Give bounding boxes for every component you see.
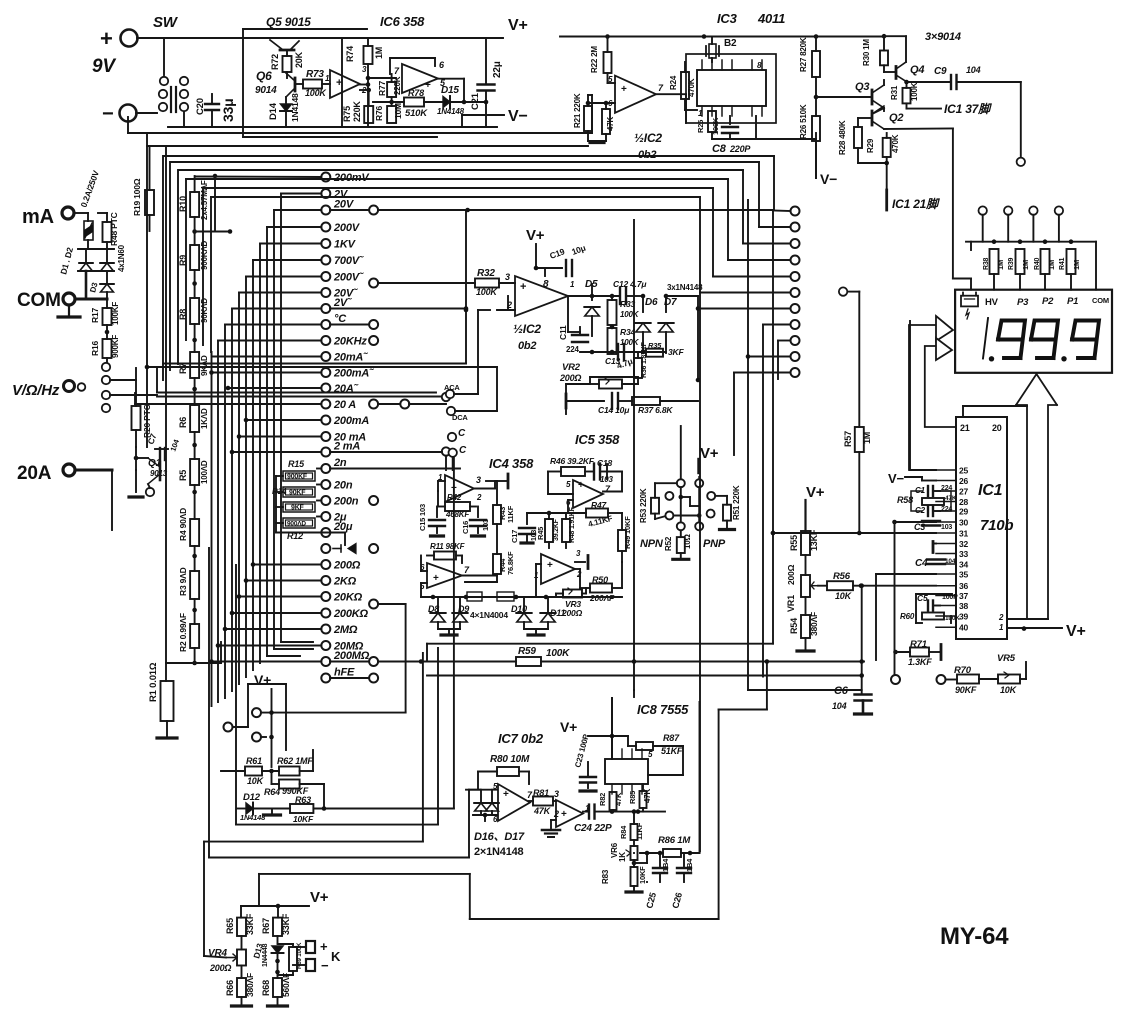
resistor R28 480K <box>854 127 862 148</box>
svg-text:R55: R55 <box>789 535 799 551</box>
display box <box>955 290 1112 373</box>
svg-text:Q5 9015: Q5 9015 <box>266 15 311 29</box>
wire 200Vac <box>246 276 321 278</box>
svg-text:R60: R60 <box>900 612 915 621</box>
svg-text:224: 224 <box>941 506 952 513</box>
svg-text:R73: R73 <box>306 69 324 80</box>
svg-text:C8: C8 <box>712 143 727 155</box>
wire right contacts <box>773 210 791 213</box>
wire ic5b out <box>575 568 580 570</box>
svg-text:D7: D7 <box>664 297 677 308</box>
svg-text:2: 2 <box>998 613 1004 622</box>
svg-text:C6: C6 <box>834 685 849 697</box>
svg-text:10K: 10K <box>835 591 853 601</box>
resistor R39 1M <box>1016 249 1025 274</box>
circle DCA <box>447 407 455 415</box>
resistor R87 51KF <box>636 742 653 750</box>
switch contact 200mA <box>321 416 330 425</box>
switch contact °C <box>321 320 330 329</box>
svg-text:R57: R57 <box>843 431 853 447</box>
capacitor C18 103 <box>593 464 595 480</box>
svg-text:20: 20 <box>992 423 1002 433</box>
resistor R5 100 <box>190 459 199 485</box>
svg-text:R31: R31 <box>890 85 899 100</box>
svg-text:2n: 2n <box>333 457 347 469</box>
svg-text:1B4: 1B4 <box>661 858 670 872</box>
capacitor C2 224 <box>927 506 929 516</box>
capacitor C8 220P <box>729 116 731 124</box>
resistor R78 510K <box>373 101 404 103</box>
svg-text:−: − <box>102 103 113 125</box>
svg-text:200V˜: 200V˜ <box>333 272 364 284</box>
svg-text:R4 90ΛD: R4 90ΛD <box>178 508 188 541</box>
svg-text:IC7 0b2: IC7 0b2 <box>498 731 544 746</box>
svg-text:1K: 1K <box>618 852 627 862</box>
wire center divider <box>633 220 635 690</box>
svg-text:D5: D5 <box>585 279 598 290</box>
wire top rail <box>137 37 503 39</box>
svg-text:39.2KF: 39.2KF <box>553 518 560 541</box>
diode D7 <box>665 296 667 312</box>
svg-text:R6: R6 <box>178 417 188 428</box>
wire ic4b <box>421 570 427 572</box>
svg-text:R51 220K: R51 220K <box>732 485 741 520</box>
svg-text:33KF: 33KF <box>245 913 255 935</box>
svg-text:13KF: 13KF <box>809 529 819 551</box>
svg-text:200MΩ: 200MΩ <box>333 650 370 662</box>
resistor R41 1M <box>1067 249 1076 274</box>
op-amp IC7b <box>556 800 583 827</box>
resistor R54 380F <box>805 597 807 615</box>
svg-text:R67: R67 <box>261 918 271 934</box>
svg-text:C9: C9 <box>934 66 947 77</box>
capacitor C1 224 <box>911 491 922 511</box>
fuse 0.2A/250V <box>74 212 88 214</box>
wire ACA net <box>465 210 467 364</box>
svg-text:90KF: 90KF <box>955 685 977 695</box>
svg-text:900ΛD: 900ΛD <box>287 521 306 528</box>
svg-text:104: 104 <box>945 558 956 565</box>
svg-text:R40: R40 <box>1034 257 1041 270</box>
svg-text:V+: V+ <box>508 17 528 34</box>
label IC1 37 <box>906 103 908 108</box>
svg-text:R76: R76 <box>374 106 384 121</box>
resistor R71 1.3KF <box>893 650 898 655</box>
wire 200mV <box>196 176 321 179</box>
capacitor C17 103 <box>526 513 528 524</box>
svg-text:1KV: 1KV <box>334 239 357 251</box>
svg-text:47K: 47K <box>643 789 652 803</box>
resistor R30 1M <box>883 36 885 50</box>
switch contact 200KΩ <box>321 609 330 618</box>
arrow display bottom <box>1016 405 1027 619</box>
svg-text:20A: 20A <box>17 463 52 484</box>
wire vr4 vplus <box>241 905 309 907</box>
svg-text:R78: R78 <box>408 88 424 98</box>
svg-text:1.3KF: 1.3KF <box>908 657 932 667</box>
resistor R52 10 <box>680 530 682 537</box>
battery contact K <box>306 941 315 953</box>
wire pin20 21 traces <box>962 406 964 417</box>
svg-text:1M: 1M <box>862 432 872 444</box>
svg-text:R45: R45 <box>536 527 545 540</box>
svg-text:28: 28 <box>959 497 969 507</box>
wire pin1 vplus <box>1007 627 1062 629</box>
circle C2 <box>449 449 457 457</box>
svg-text:V+: V+ <box>254 672 271 688</box>
resistor R9 900K <box>190 245 199 270</box>
diode D6 <box>642 296 644 312</box>
svg-text:Q2: Q2 <box>889 112 903 124</box>
svg-text:200Ω: 200Ω <box>333 560 361 572</box>
svg-text:Q6: Q6 <box>256 69 272 83</box>
wire R63 riser <box>453 455 455 809</box>
wire ic5a fb <box>547 472 549 495</box>
resistor R2 0.99 <box>190 624 199 648</box>
pot VR6 1K <box>631 846 638 860</box>
switch contact 2KΩ <box>321 576 330 585</box>
wire hFE socket <box>271 689 273 767</box>
capacitor C14 10u <box>566 400 604 402</box>
wire ic4a out <box>474 488 495 490</box>
svg-text:1N4448: 1N4448 <box>262 943 269 967</box>
svg-text:½IC2: ½IC2 <box>513 322 541 336</box>
resistor R75 220K <box>364 106 373 123</box>
resistor R34 100K <box>608 328 617 354</box>
wire socket vplus <box>697 459 699 473</box>
contact column right <box>791 207 800 216</box>
IC8 box <box>605 759 648 784</box>
resistor R10 2x4.57M <box>190 192 199 217</box>
wire d89 gnd <box>438 628 460 630</box>
svg-text:C4: C4 <box>915 558 928 569</box>
circle ACA <box>446 390 454 398</box>
svg-text:D6: D6 <box>645 297 658 308</box>
resistor R24 470K <box>681 72 689 99</box>
svg-text:R80 10M: R80 10M <box>490 754 530 765</box>
pot VR1 200 <box>801 575 810 597</box>
svg-text:27: 27 <box>959 487 969 497</box>
wire right bus verticals <box>773 156 775 210</box>
ground COM <box>68 306 70 316</box>
resistor R51 220K <box>715 495 727 497</box>
svg-text:R83: R83 <box>601 869 610 884</box>
svg-text:R65: R65 <box>225 918 235 934</box>
svg-text:R66: R66 <box>225 980 235 996</box>
wire 20mAac <box>212 356 322 358</box>
wire ic3 rail <box>560 36 884 38</box>
svg-text:200n: 200n <box>333 496 359 508</box>
wire c6 riser <box>748 689 862 691</box>
svg-text:R85: R85 <box>628 791 637 804</box>
svg-text:104: 104 <box>966 65 981 75</box>
svg-text:10M: 10M <box>393 103 403 119</box>
switch contact 20V˜ <box>321 288 330 297</box>
wire d1011 gnd <box>524 628 548 630</box>
svg-text:200Ω: 200Ω <box>559 373 581 383</box>
svg-text:1B4: 1B4 <box>685 858 694 872</box>
wire 20Vac <box>239 292 321 294</box>
wire ic5 bottom <box>592 596 622 598</box>
svg-text:R84: R84 <box>619 825 628 839</box>
svg-text:200Ω: 200Ω <box>561 608 583 618</box>
svg-text:Q4: Q4 <box>910 64 924 76</box>
battery + terminal <box>121 30 138 47</box>
resistor R6 1K <box>190 405 199 432</box>
switch contact 700V˜ <box>321 256 330 265</box>
svg-text:200Ω: 200Ω <box>209 963 231 973</box>
wire 20mA <box>239 436 321 438</box>
resistor R67 33KF <box>273 918 282 936</box>
svg-text:R48 1.91KF: R48 1.91KF <box>569 506 576 543</box>
svg-text:9KΛD: 9KΛD <box>200 355 209 376</box>
svg-text:700V˜: 700V˜ <box>334 255 364 267</box>
wire c5 box <box>915 594 917 623</box>
svg-text:900KF: 900KF <box>287 474 308 481</box>
wire 200mAac <box>212 372 322 374</box>
resistor R84 11KF <box>631 824 638 840</box>
svg-text:100K: 100K <box>546 648 570 659</box>
wire ic8 top loop <box>588 735 628 737</box>
op-amp IC6a <box>330 70 360 98</box>
resistor R69 100K <box>278 943 294 945</box>
svg-text:9KF: 9KF <box>291 505 305 512</box>
wire 700V <box>253 259 321 261</box>
wire mA net <box>85 271 88 299</box>
switch contact 20V <box>321 206 330 215</box>
svg-text:+: + <box>547 560 553 571</box>
display contacts <box>979 206 987 214</box>
svg-text:D14: D14 <box>268 102 279 120</box>
resistor R77 220K <box>387 82 396 97</box>
svg-text:°C: °C <box>334 313 347 325</box>
svg-text:3: 3 <box>476 475 481 485</box>
resistor R66 380F <box>241 966 243 979</box>
resistor R62 1MF <box>279 767 300 776</box>
svg-text:D15: D15 <box>441 85 459 96</box>
svg-text:8: 8 <box>543 279 549 290</box>
svg-text:R28 480K: R28 480K <box>838 120 847 155</box>
svg-text:R36 1.87KF: R36 1.87KF <box>641 341 648 378</box>
svg-text:10KF: 10KF <box>638 866 647 884</box>
svg-text:200mV: 200mV <box>333 172 370 184</box>
svg-text:2: 2 <box>506 300 512 310</box>
svg-text:C11: C11 <box>558 325 568 340</box>
wire bus bottoms <box>274 648 313 650</box>
wire bottom rail power <box>183 112 185 127</box>
svg-text:33KF: 33KF <box>281 913 291 935</box>
svg-text:IC3: IC3 <box>717 11 738 26</box>
svg-text:C18: C18 <box>597 458 612 468</box>
svg-text:P3: P3 <box>1017 297 1029 308</box>
resistor R49 10KF <box>621 513 623 530</box>
svg-text:10K: 10K <box>247 776 265 786</box>
svg-text:4×1N4004: 4×1N4004 <box>470 610 508 620</box>
svg-text:710b: 710b <box>980 517 1013 534</box>
wire q3 base <box>816 96 872 98</box>
svg-text:470K: 470K <box>891 134 900 153</box>
wire ic2a out <box>656 93 686 95</box>
resistor R55 13KF <box>801 531 810 555</box>
wire vr2 down <box>566 383 590 385</box>
svg-text:20μ: 20μ <box>333 521 353 533</box>
resistor R85 47K <box>640 791 647 808</box>
svg-text:200mA: 200mA <box>333 415 369 427</box>
wire vr1 top <box>804 500 806 531</box>
svg-text:R81: R81 <box>533 788 549 798</box>
resistor R8 90K <box>190 298 199 324</box>
resistor R31 100K <box>903 88 911 104</box>
svg-text:D9: D9 <box>458 604 469 614</box>
capacitor pin32 stub <box>932 542 935 553</box>
svg-text:mA: mA <box>22 206 54 228</box>
switch contact 20μ <box>321 528 330 537</box>
svg-text:35: 35 <box>959 570 969 580</box>
resistor R50 200F <box>590 584 612 593</box>
svg-text:+: + <box>100 26 113 51</box>
svg-text:20n: 20n <box>333 480 353 492</box>
battery - terminal <box>120 105 137 122</box>
capacitor C25 184 <box>659 853 661 866</box>
svg-text:100K: 100K <box>305 88 327 98</box>
resistor R63 10KF <box>290 804 313 813</box>
wire ic2 out <box>544 268 546 276</box>
svg-text:C: C <box>458 428 466 439</box>
svg-text:3x1N4148: 3x1N4148 <box>667 283 703 292</box>
op-amp IC7 <box>498 784 530 821</box>
resistor R42 468KF <box>445 502 470 511</box>
wire bottom bus 4 <box>259 873 470 875</box>
wire pin35 <box>876 573 936 575</box>
wire pin2 trace <box>1007 618 1048 620</box>
capacitor C24 22P <box>583 811 589 813</box>
svg-text:R39: R39 <box>1008 257 1015 270</box>
wire bottom bus 3 <box>204 841 423 843</box>
resistor R25 100K <box>708 111 716 132</box>
diode D9 <box>453 613 467 622</box>
svg-text:47K: 47K <box>606 117 615 131</box>
svg-text:C21: C21 <box>470 92 481 110</box>
wire 20Aac <box>228 387 321 389</box>
svg-text:V−: V− <box>508 108 528 125</box>
op-amp IC5a <box>573 480 603 508</box>
resistor R68 560F <box>273 978 282 997</box>
svg-text:R50: R50 <box>592 575 608 585</box>
svg-text:V+: V+ <box>310 889 329 906</box>
svg-text:Q3: Q3 <box>855 81 869 93</box>
resistor R57 1M <box>858 292 860 427</box>
svg-text:560ΛF: 560ΛF <box>281 973 291 997</box>
svg-text:900KΛD: 900KΛD <box>200 241 209 270</box>
switch contacts V section <box>102 363 110 371</box>
switch contact 200MΩ <box>321 657 330 666</box>
wire 20KHz row <box>218 340 321 342</box>
pot VR4 200 <box>237 950 246 966</box>
svg-text:33: 33 <box>959 549 969 559</box>
switch contact 1KV <box>321 239 330 248</box>
wire 200mA <box>246 419 321 421</box>
svg-text:468KF: 468KF <box>445 510 470 519</box>
svg-text:4x1N60: 4x1N60 <box>117 244 126 272</box>
svg-text:380ΛF: 380ΛF <box>245 973 255 997</box>
resistor R56 10K <box>818 585 827 587</box>
switch contact 200mA˜ <box>321 368 330 377</box>
resistor R4 90 <box>190 519 199 546</box>
IC3 body <box>697 70 766 106</box>
capacitor C16 103 <box>477 507 479 518</box>
wire bottom bus 2 <box>235 565 237 825</box>
wire 2n <box>317 468 321 470</box>
small box 1 <box>467 592 482 601</box>
svg-text:C2: C2 <box>915 506 926 515</box>
switch contact 20 mA <box>321 432 330 441</box>
svg-text:104: 104 <box>832 701 847 711</box>
svg-text:200ΛF: 200ΛF <box>589 593 615 603</box>
svg-text:900KF: 900KF <box>111 335 120 358</box>
resistor R27 820K <box>815 37 817 52</box>
capacitor C19 10u <box>535 244 537 268</box>
svg-text:IC1 37脚: IC1 37脚 <box>944 102 992 116</box>
svg-text:9014: 9014 <box>255 85 277 96</box>
resistor R21 220K <box>584 106 592 131</box>
svg-text:IC4 358: IC4 358 <box>489 456 534 471</box>
switch contact 2V <box>321 189 330 198</box>
svg-text:470K: 470K <box>687 78 696 97</box>
wire q4 base <box>884 71 896 73</box>
svg-text:R38: R38 <box>983 257 990 270</box>
svg-text:R53 220K: R53 220K <box>639 488 648 523</box>
capacitor C4 104 <box>927 558 945 560</box>
pot VR5 10K <box>998 675 1020 684</box>
resistor R61 10K <box>221 770 245 772</box>
svg-text:37: 37 <box>959 591 969 601</box>
svg-text:IC8 7555: IC8 7555 <box>637 702 689 717</box>
svg-text:51KF: 51KF <box>661 746 683 756</box>
svg-text:1N4148: 1N4148 <box>290 93 300 122</box>
switch contact 20A˜ <box>321 384 330 393</box>
diode D8 <box>431 613 445 622</box>
IC3 outer box <box>686 54 776 123</box>
wire q2 emitter <box>884 127 953 130</box>
resistor R40 1M <box>1041 249 1050 274</box>
svg-text:R58: R58 <box>897 495 913 505</box>
arrow into display lower <box>925 346 956 427</box>
wire socket <box>680 426 682 479</box>
switch contact 2V˜ <box>321 304 330 313</box>
wire right bus lower <box>699 293 701 852</box>
svg-text:103: 103 <box>941 524 952 531</box>
svg-text:R62 1MF: R62 1MF <box>277 756 313 766</box>
svg-text:+: + <box>503 789 509 800</box>
svg-text:R37 6.8K: R37 6.8K <box>638 405 673 415</box>
svg-text:10K: 10K <box>1000 685 1018 695</box>
svg-text:R35: R35 <box>648 341 662 350</box>
switch contact 200Ω <box>321 560 330 569</box>
svg-text:1KΛD: 1KΛD <box>200 408 209 429</box>
svg-text:D12: D12 <box>243 792 261 803</box>
svg-text:HV: HV <box>985 297 999 308</box>
svg-text:R56: R56 <box>833 571 851 582</box>
pot VR3 200 <box>563 590 582 598</box>
svg-text:VR1: VR1 <box>786 595 796 612</box>
wire r86 right <box>699 702 701 853</box>
svg-text:3×9014: 3×9014 <box>925 31 961 43</box>
svg-text:220K: 220K <box>352 101 362 122</box>
capacitor C3 103 <box>922 520 940 522</box>
resistor R38 1M <box>990 249 999 274</box>
svg-text:2x4.57MΛF: 2x4.57MΛF <box>200 180 209 220</box>
svg-text:R71: R71 <box>910 639 927 650</box>
